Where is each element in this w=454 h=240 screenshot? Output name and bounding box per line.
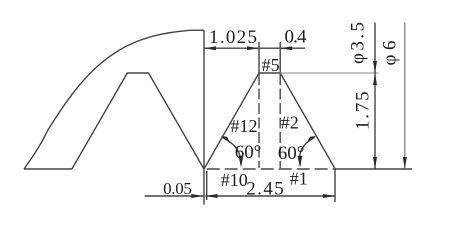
svg-text:#5: #5 <box>262 55 280 75</box>
arrow 0.4 (outside, pointing left) <box>280 46 292 50</box>
arrow 0.05 pointing right <box>191 194 203 198</box>
bottom dimension line 0.05 <box>145 195 204 197</box>
arrow 1.025 right <box>247 46 259 50</box>
extension line at 335 <box>334 169 336 202</box>
svg-text:#1: #1 <box>290 168 308 188</box>
arrow 1.75 up at crest <box>373 73 377 85</box>
svg-text:#2: #2 <box>281 113 299 133</box>
svg-text:0.05: 0.05 <box>163 179 192 198</box>
arrow 60 left lower (to root line) <box>239 156 244 168</box>
arrow 60 left upper (to flank) <box>221 136 231 144</box>
svg-text:#12: #12 <box>231 116 258 136</box>
svg-text:60°: 60° <box>278 143 305 164</box>
#5 extension verticals <box>258 42 260 73</box>
left profile bottom line <box>24 168 72 170</box>
arrow 60 right lower (to root line) <box>298 156 303 168</box>
vertical edge / extension line at x=204 <box>203 30 205 204</box>
svg-text:2.45: 2.45 <box>246 178 283 199</box>
top dimension line <box>204 47 305 49</box>
arrow 1.025 left <box>204 46 216 50</box>
svg-text:φ6: φ6 <box>380 41 401 66</box>
bottom dimension line 2.45 <box>206 195 336 197</box>
svg-text:1.025: 1.025 <box>209 27 257 48</box>
dashed vertical left (tooth crest side) <box>258 74 260 168</box>
svg-text:φ3.5: φ3.5 <box>348 22 369 64</box>
bottom dashed line under tooth <box>207 168 335 170</box>
arc flank of left profile <box>24 30 204 169</box>
svg-text:#10: #10 <box>221 170 248 190</box>
arrow 2.45 right <box>323 194 335 198</box>
bottom line solid right part <box>335 168 412 170</box>
extension line at 206.7 <box>206 171 208 200</box>
arrow 2.45 left (outside, pointing left) <box>206 194 218 198</box>
phi6 dimension vertical <box>404 23 406 169</box>
top crest extension line to phi3.5 <box>280 72 378 74</box>
60deg leader left <box>223 138 241 165</box>
svg-text:60°: 60° <box>235 142 262 163</box>
phi3.5 / 1.75 dimension vertical <box>374 23 376 169</box>
right tooth triangle <box>204 73 335 169</box>
60deg leader right <box>299 138 314 166</box>
svg-text:0.4: 0.4 <box>285 27 308 48</box>
arrow phi6 down at root <box>403 157 407 169</box>
tent (inner trapezoid tooth) <box>72 73 204 169</box>
arrow 1.75 down at root <box>373 157 377 169</box>
arrow phi3.5 down at crest <box>373 61 377 73</box>
svg-text:1.75: 1.75 <box>353 91 374 130</box>
dashed vertical right (tooth crest side) <box>279 74 281 168</box>
arrow 60 right upper (to flank) <box>307 136 317 144</box>
